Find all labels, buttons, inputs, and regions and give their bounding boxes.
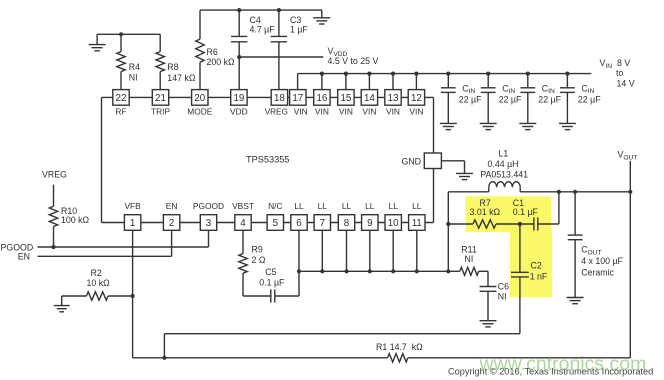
svg-text:R4: R4 xyxy=(129,62,140,72)
svg-text:VIN: VIN xyxy=(362,107,376,117)
svg-text:R6: R6 xyxy=(207,47,218,57)
wire COUT bottom xyxy=(574,240,576,298)
label VIN xyxy=(600,58,635,88)
svg-text:11: 11 xyxy=(412,218,422,229)
wire LL bus xyxy=(299,270,448,272)
pin 2 EN xyxy=(163,201,179,230)
wire IC bottom row xyxy=(102,222,434,224)
svg-text:VIN: VIN xyxy=(386,107,400,117)
svg-text:R9: R9 xyxy=(252,244,263,254)
label CIN1 xyxy=(459,83,482,104)
svg-text:17: 17 xyxy=(292,93,303,104)
wire CIN3 leads xyxy=(527,74,529,124)
svg-text:1 µF: 1 µF xyxy=(290,24,308,34)
svg-text:LL: LL xyxy=(412,201,422,211)
svg-text:0.1 µF: 0.1 µF xyxy=(513,207,539,217)
label PGOOD net xyxy=(1,243,34,253)
svg-text:100 kΩ: 100 kΩ xyxy=(61,215,90,225)
wire LL stub x322.3 xyxy=(321,230,323,271)
wire IC right edge xyxy=(433,97,435,222)
label VVDD xyxy=(328,46,379,66)
svg-text:N/C: N/C xyxy=(268,201,282,211)
wire feedback mid xyxy=(164,334,520,358)
svg-text:VBST: VBST xyxy=(232,201,254,211)
wire LL node vertical xyxy=(447,192,449,271)
svg-text:PGOOD: PGOOD xyxy=(193,201,224,211)
wire bottom right xyxy=(408,357,630,359)
wire VIN pin stub x416.4 xyxy=(415,74,417,90)
svg-text:12: 12 xyxy=(411,93,422,104)
label C6 xyxy=(498,281,509,301)
capacitor CIN4 xyxy=(560,88,575,93)
pin 7 LL xyxy=(314,201,330,230)
wire R7 left xyxy=(448,223,473,225)
pin 12 VIN xyxy=(408,90,424,117)
resistor R9 xyxy=(239,254,247,274)
node LL bus x416.8 xyxy=(415,269,419,273)
wire R9 to C5 xyxy=(243,273,271,296)
label EN net xyxy=(18,252,30,262)
svg-text:VFB: VFB xyxy=(124,201,141,211)
pin 17 VIN xyxy=(290,90,308,117)
svg-text:5: 5 xyxy=(273,218,279,229)
capacitor C6 xyxy=(480,287,497,292)
label R1 xyxy=(376,342,423,352)
label R4 xyxy=(129,62,140,83)
wire R2 right xyxy=(108,295,133,297)
svg-text:VIN: VIN xyxy=(339,107,353,117)
svg-text:4: 4 xyxy=(240,218,246,229)
wire R10 bottom xyxy=(53,227,55,248)
pin 20 MODE xyxy=(187,90,213,117)
svg-text:NI: NI xyxy=(465,254,474,264)
ground G-topleft xyxy=(89,45,106,51)
inductor L1 xyxy=(448,182,630,192)
ground G-R2 xyxy=(54,306,70,312)
svg-text:7: 7 xyxy=(320,218,325,229)
label TPS53355 xyxy=(246,154,289,164)
wire VDD xyxy=(239,56,323,58)
resistor R2 xyxy=(86,292,108,300)
svg-text:R8: R8 xyxy=(167,62,178,72)
pin 22 RF xyxy=(113,90,129,117)
svg-text:LL: LL xyxy=(342,201,352,211)
node CIN2 rail xyxy=(486,72,490,76)
node LL bus x369.8 xyxy=(368,269,372,273)
wire R9 top lead xyxy=(242,230,244,253)
resistor R6 xyxy=(196,39,204,62)
svg-text:10 kΩ: 10 kΩ xyxy=(87,278,111,288)
wire C2 bottom xyxy=(519,277,521,334)
node C1 C2 junction xyxy=(518,222,522,226)
svg-text:to: to xyxy=(616,68,623,78)
svg-text:0.1 µF: 0.1 µF xyxy=(259,278,285,288)
wire EN xyxy=(38,230,172,256)
node C1 to VOUT rail xyxy=(557,190,561,194)
wire top rail xyxy=(200,9,322,11)
svg-text:EN: EN xyxy=(18,252,30,262)
ground G-CIN2 xyxy=(480,123,497,129)
ground G-C6 xyxy=(480,321,497,327)
svg-text:0.44 µH: 0.44 µH xyxy=(488,159,519,169)
wire IC left edge xyxy=(101,97,103,222)
svg-text:EN: EN xyxy=(166,201,178,211)
node VIN rail x393 xyxy=(391,72,395,76)
wire LL stub x369.8 xyxy=(369,230,371,271)
node CIN3 rail xyxy=(526,72,530,76)
node R7 tap xyxy=(446,222,450,226)
svg-text:4.7 µF: 4.7 µF xyxy=(250,24,276,34)
wire C6 to ground xyxy=(487,291,489,320)
wire R7 to C1 xyxy=(496,223,534,225)
node LL bus x393.2 xyxy=(391,269,395,273)
capacitor CIN1 xyxy=(441,88,456,93)
wire LL stub x393.2 xyxy=(392,230,394,271)
pin 5 N/C xyxy=(267,201,283,230)
svg-text:C5: C5 xyxy=(265,267,276,277)
label R9 xyxy=(252,244,266,265)
svg-text:L1: L1 xyxy=(499,148,509,158)
label CIN2 xyxy=(499,83,522,104)
svg-text:VDD: VDD xyxy=(230,107,248,117)
node COUT rail xyxy=(573,190,577,194)
svg-text:2: 2 xyxy=(169,218,174,229)
wire bottom left xyxy=(133,357,388,359)
svg-text:TPS53355: TPS53355 xyxy=(246,154,289,164)
pin 1 VFB xyxy=(124,201,141,230)
svg-text:4.5 V to 25 V: 4.5 V to 25 V xyxy=(328,56,379,66)
wire VIN pin stub x369.4 xyxy=(368,74,370,90)
node bottom junction xyxy=(162,356,166,360)
wire VIN pin stub x321.9 xyxy=(321,74,323,90)
label R8 xyxy=(167,62,196,83)
ground G-COUT xyxy=(567,298,584,304)
wire VREG to R10 xyxy=(53,185,55,207)
svg-text:PA0513.441: PA0513.441 xyxy=(480,170,528,180)
svg-text:22: 22 xyxy=(116,93,127,104)
svg-text:147 kΩ: 147 kΩ xyxy=(167,73,196,83)
capacitor C4 xyxy=(231,36,247,41)
svg-text:VREG: VREG xyxy=(265,108,288,117)
resistor R10 xyxy=(49,206,57,226)
capacitor C3 xyxy=(271,36,287,41)
wire R2 left + ground stem xyxy=(62,296,87,306)
pin 9 LL xyxy=(362,201,378,230)
wire VOUT vertical xyxy=(629,161,631,358)
wire VIN pin stub x393 xyxy=(392,74,394,90)
node VIN rail x321.9 xyxy=(320,72,324,76)
pin 11 LL xyxy=(409,201,425,230)
node LL bus x346.5 xyxy=(344,269,348,273)
svg-text:C2: C2 xyxy=(531,260,542,270)
label R2 xyxy=(87,268,111,288)
svg-text:4 x 100 µF: 4 x 100 µF xyxy=(581,256,623,266)
pin 14 VIN xyxy=(361,90,377,117)
node CIN1 rail xyxy=(446,72,450,76)
svg-text:3.01 kΩ: 3.01 kΩ xyxy=(470,207,501,217)
wire CIN2 leads xyxy=(487,74,489,124)
node VIN rail x416.4 xyxy=(414,72,418,76)
ground G-toprail xyxy=(313,18,330,24)
pin 13 VIN xyxy=(385,90,401,117)
svg-text:21: 21 xyxy=(155,93,166,104)
capacitor C5 xyxy=(271,289,275,302)
resistor R4 xyxy=(117,52,125,72)
capacitor C2 xyxy=(511,272,529,277)
svg-text:VIN: VIN xyxy=(294,107,308,117)
svg-text:R11: R11 xyxy=(461,245,477,255)
capacitor COUT xyxy=(568,235,583,240)
pin 4 VBST xyxy=(232,201,254,230)
pin 16 VIN xyxy=(314,90,330,117)
svg-text:www.cntronics.com: www.cntronics.com xyxy=(479,353,647,375)
node LL bus x448.3 xyxy=(446,269,450,273)
svg-text:200 kΩ: 200 kΩ xyxy=(207,57,236,67)
node C3 top xyxy=(277,8,281,12)
resistor R8 xyxy=(156,52,164,72)
pad GND xyxy=(401,153,441,169)
svg-text:8: 8 xyxy=(344,218,350,229)
svg-text:16: 16 xyxy=(316,93,327,104)
svg-text:VREG: VREG xyxy=(42,170,67,180)
wire C4 leads xyxy=(238,10,240,90)
label VREG net xyxy=(42,170,67,180)
capacitor CIN2 xyxy=(481,88,496,93)
wire R8 leads xyxy=(159,34,161,90)
label CIN4 xyxy=(578,83,601,104)
highlight box R7/C1 xyxy=(465,196,551,232)
svg-text:2 Ω: 2 Ω xyxy=(252,255,266,265)
node R4 top junction xyxy=(119,32,123,36)
svg-text:14 V: 14 V xyxy=(617,78,635,88)
node VIN rail x369.4 xyxy=(367,72,371,76)
wire R11 to C6 xyxy=(479,271,488,286)
label R6 xyxy=(207,47,236,67)
svg-text:Ceramic: Ceramic xyxy=(581,268,614,278)
pin 18 VREG xyxy=(265,90,288,117)
ground G-CIN4 xyxy=(559,123,576,129)
svg-text:9: 9 xyxy=(367,218,372,229)
svg-text:VIN: VIN xyxy=(315,107,329,117)
capacitor C1 xyxy=(534,217,538,230)
svg-text:10: 10 xyxy=(388,218,399,229)
svg-text:22 µF: 22 µF xyxy=(578,95,601,105)
node VOUT rail junction xyxy=(628,190,632,194)
node PGOOD R10 junction xyxy=(51,245,55,249)
svg-text:19: 19 xyxy=(233,93,244,104)
svg-text:22 µF: 22 µF xyxy=(538,95,561,105)
wire R11 left xyxy=(448,270,460,272)
label C5 xyxy=(259,267,285,288)
wire R6 leads xyxy=(199,10,201,90)
svg-text:1: 1 xyxy=(130,218,135,229)
wire COUT top xyxy=(574,192,576,235)
svg-text:18: 18 xyxy=(274,93,285,104)
svg-text:1 nF: 1 nF xyxy=(530,271,548,281)
pin 3 PGOOD xyxy=(193,201,224,230)
svg-text:14: 14 xyxy=(364,93,375,104)
svg-text:LL: LL xyxy=(365,201,375,211)
svg-text:13: 13 xyxy=(388,93,399,104)
wire VIN rail xyxy=(298,74,592,90)
label R7 xyxy=(470,198,501,217)
label C2 xyxy=(530,260,548,281)
resistor R1 xyxy=(388,354,408,362)
wire GND pad to ground xyxy=(441,161,464,174)
svg-text:VIN: VIN xyxy=(409,107,423,117)
svg-text:15: 15 xyxy=(340,93,351,104)
svg-text:LL: LL xyxy=(318,201,328,211)
svg-text:LL: LL xyxy=(294,201,304,211)
svg-text:8 V: 8 V xyxy=(617,58,630,68)
wire VFB column xyxy=(132,230,134,357)
wire PGOOD xyxy=(38,230,209,247)
label COUT xyxy=(581,245,623,278)
label R10 xyxy=(61,206,90,225)
resistor R11 xyxy=(460,267,479,275)
svg-text:R2: R2 xyxy=(91,268,102,278)
node LL bus x299 xyxy=(297,269,301,273)
svg-text:NI: NI xyxy=(498,292,507,302)
ground G-CIN3 xyxy=(519,123,536,129)
wire VIN pin stub x345.9 xyxy=(345,74,347,90)
highlight box C2 xyxy=(510,232,552,297)
svg-text:GND: GND xyxy=(401,156,421,166)
svg-text:NI: NI xyxy=(129,73,138,83)
resistor R7 xyxy=(473,220,496,228)
svg-text:C6: C6 xyxy=(498,281,509,291)
label C3 xyxy=(290,15,308,34)
svg-text:LL: LL xyxy=(389,201,399,211)
pin 21 TRIP xyxy=(151,90,170,117)
wire C2 top xyxy=(519,224,521,272)
wire C1 right xyxy=(538,192,559,224)
wire LL stub x346.5 xyxy=(346,230,348,271)
svg-text:TRIP: TRIP xyxy=(151,107,170,117)
wire LL stub x416.8 xyxy=(416,230,418,271)
wire IC top row xyxy=(102,96,434,98)
wire ground stem top rail xyxy=(321,10,323,18)
ground G-GNDpad xyxy=(456,173,473,179)
pin 19 VDD xyxy=(230,90,248,117)
wire C3 leads xyxy=(278,10,280,90)
label L1 xyxy=(480,148,528,179)
svg-text:22 µF: 22 µF xyxy=(459,95,482,105)
ground G-CIN1 xyxy=(440,123,457,129)
wire R4 leads xyxy=(120,34,122,90)
node C4 top xyxy=(237,8,241,12)
pin 15 VIN xyxy=(338,90,354,117)
label VOUT net xyxy=(618,150,638,162)
wire CIN4 leads xyxy=(566,74,568,124)
watermark xyxy=(479,353,647,375)
svg-text:6: 6 xyxy=(296,218,302,229)
node VFB R2 junction xyxy=(131,294,135,298)
svg-text:22 µF: 22 µF xyxy=(499,95,522,105)
node CIN4 rail xyxy=(565,72,569,76)
wire top-left ground net xyxy=(97,34,160,44)
svg-text:RF: RF xyxy=(115,107,126,117)
pin 6 LL xyxy=(291,201,307,230)
node LL bus x322.3 xyxy=(320,269,324,273)
label CIN3 xyxy=(538,83,561,104)
label C4 xyxy=(250,15,276,34)
label R11 xyxy=(461,245,477,265)
pin 10 LL xyxy=(385,201,401,230)
svg-text:MODE: MODE xyxy=(187,107,213,117)
wire CIN1 leads xyxy=(447,74,449,124)
node VDD tap xyxy=(237,55,241,59)
wire C5 to pin6 xyxy=(275,230,299,296)
copyright text xyxy=(448,367,653,377)
pin 8 LL xyxy=(338,201,354,230)
svg-text:R1 14.7 kΩ: R1 14.7 kΩ xyxy=(376,342,423,352)
svg-text:3: 3 xyxy=(206,218,212,229)
label C1 xyxy=(513,198,539,217)
svg-text:20: 20 xyxy=(194,93,205,104)
node VIN rail x345.9 xyxy=(344,72,348,76)
capacitor CIN3 xyxy=(520,88,535,93)
